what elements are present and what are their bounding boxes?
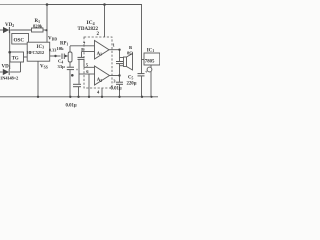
svg-text:C5: C5 xyxy=(128,76,133,81)
svg-text:8Ω: 8Ω xyxy=(127,50,133,55)
svg-text:VDD: VDD xyxy=(48,37,57,42)
svg-text:33μ: 33μ xyxy=(58,64,66,69)
svg-text:+: + xyxy=(145,70,148,75)
svg-text:0.33: 0.33 xyxy=(49,48,56,53)
svg-text:820k: 820k xyxy=(33,24,43,29)
svg-text:7805: 7805 xyxy=(145,59,155,64)
svg-text:OSC: OSC xyxy=(14,38,25,44)
svg-text:10k: 10k xyxy=(57,46,65,51)
svg-text:1N4148×2: 1N4148×2 xyxy=(0,76,19,81)
svg-text:0.01μ: 0.01μ xyxy=(111,87,122,92)
svg-text:VD2: VD2 xyxy=(5,23,14,28)
svg-text:VSS: VSS xyxy=(40,65,48,70)
svg-text:IC1: IC1 xyxy=(147,48,155,53)
svg-text:TG: TG xyxy=(12,57,19,62)
svg-text:0.01μ: 0.01μ xyxy=(66,104,77,109)
svg-text:A1: A1 xyxy=(97,52,102,57)
svg-text:TDA2822: TDA2822 xyxy=(78,27,99,32)
svg-text:HFC5212: HFC5212 xyxy=(27,50,45,55)
svg-text:VD1: VD1 xyxy=(2,65,11,70)
svg-text:A2: A2 xyxy=(97,78,102,83)
svg-text:220μ: 220μ xyxy=(127,82,137,87)
svg-text:B: B xyxy=(129,45,132,50)
svg-text:IC4: IC4 xyxy=(87,20,95,26)
